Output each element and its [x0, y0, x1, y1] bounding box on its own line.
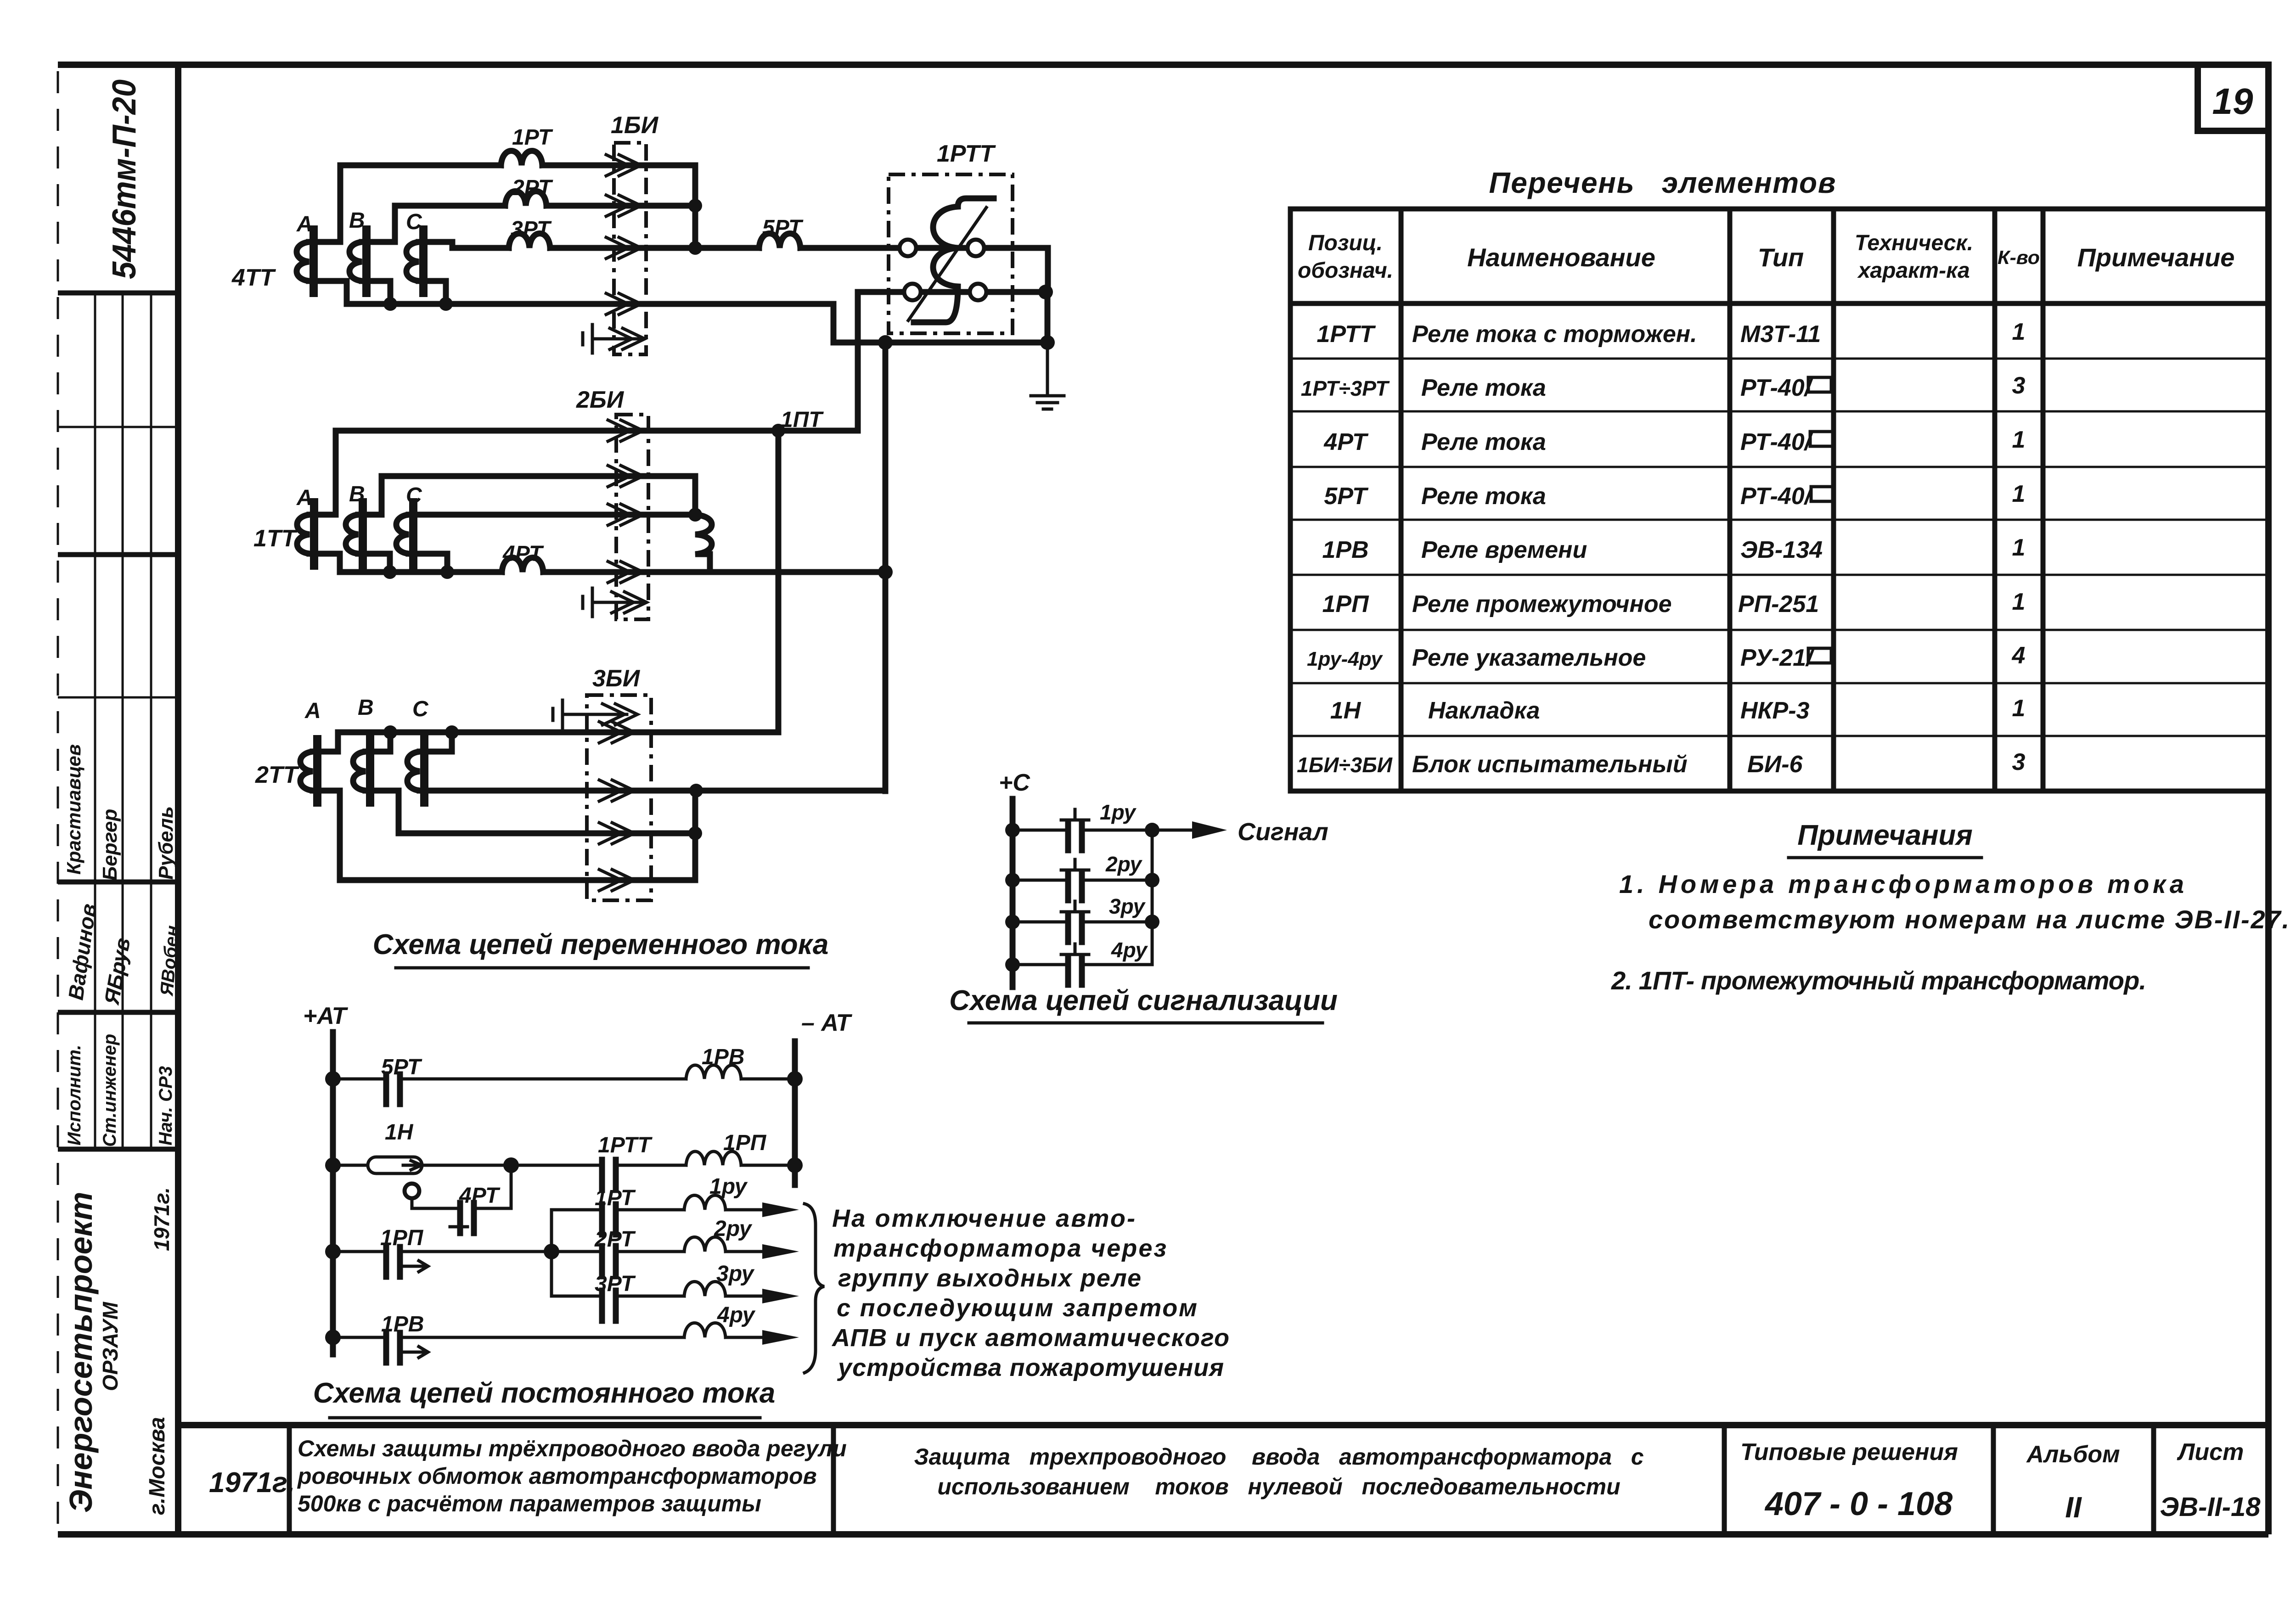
svg-text:трансформатора через: трансформатора через	[833, 1235, 1166, 1262]
svg-text:+С: +С	[999, 769, 1030, 796]
svg-text:1РТ: 1РТ	[512, 125, 553, 150]
svg-text:3: 3	[2012, 749, 2026, 775]
svg-text:Бергер: Бергер	[99, 809, 121, 881]
svg-text:Тип: Тип	[1758, 243, 1804, 272]
svg-text:1БИ: 1БИ	[611, 112, 659, 139]
svg-text:407 - 0 - 108: 407 - 0 - 108	[1764, 1486, 1953, 1522]
svg-text:Реле тока с торможен.: Реле тока с торможен.	[1412, 321, 1697, 348]
svg-text:характ-ка: характ-ка	[1857, 258, 1970, 283]
svg-text:М3Т-11: М3Т-11	[1740, 321, 1821, 348]
ground lead of test block 2BI	[583, 588, 592, 617]
svg-text:1РВ: 1РВ	[702, 1045, 744, 1069]
svg-text:К-во: К-во	[1998, 247, 2040, 268]
svg-text:Защита трехпроводного вво: Защита трехпроводного ввода автотрансфор…	[914, 1444, 1643, 1470]
test block 3BI	[587, 695, 651, 900]
wire 1N to 1RTT contact	[422, 1164, 600, 1167]
svg-text:Наименование: Наименование	[1467, 243, 1655, 272]
wire branch group	[550, 1210, 553, 1296]
svg-text:Нач. СР3: Нач. СР3	[156, 1066, 176, 1145]
svg-text:устройства пожаротушения: устройства пожаротушения	[837, 1354, 1224, 1381]
svg-text:Реле промежуточное: Реле промежуточное	[1412, 591, 1672, 618]
svg-text:– АТ: – АТ	[801, 1010, 853, 1036]
svg-text:1РВ: 1РВ	[1322, 537, 1368, 563]
svg-text:3ру: 3ру	[1109, 894, 1146, 918]
svg-text:Перечень элементов: Перечень элементов	[1489, 166, 1836, 199]
svg-text:II: II	[2065, 1491, 2082, 1524]
svg-text:Схема цепей переменного ток: Схема цепей переменного тока	[373, 929, 829, 960]
svg-text:1: 1	[2012, 427, 2026, 453]
wire collector	[1151, 830, 1154, 965]
svg-text:5РТ: 5РТ	[1324, 483, 1369, 510]
relay coil 1RT	[501, 151, 542, 166]
svg-text:3: 3	[2012, 372, 2026, 399]
svg-text:Схема цепей сигнализации: Схема цепей сигнализации	[949, 985, 1338, 1016]
svg-text:1: 1	[2012, 534, 2026, 561]
sheet number box	[2198, 65, 2268, 131]
wire 2TT-B bottom line	[378, 791, 695, 833]
svg-text:1РТТ: 1РТТ	[1317, 321, 1376, 348]
wire 1TT commons to 4RT line	[322, 554, 502, 572]
current transformer 4TT-A	[297, 230, 321, 293]
wire phase B to relay 2RT line	[374, 206, 505, 242]
svg-text:с последующим запретом: с последующим запретом	[837, 1294, 1197, 1322]
svg-text:1ру-4ру: 1ру-4ру	[1307, 648, 1384, 670]
wire 2TT tops parallel	[325, 732, 778, 752]
wire 4RT to bus	[543, 569, 885, 575]
svg-text:1РТТ: 1РТТ	[937, 140, 996, 167]
svg-text:Ст.инженер: Ст.инженер	[100, 1034, 120, 1147]
svg-text:4ру: 4ру	[1111, 938, 1148, 962]
test terminal circle	[405, 1184, 419, 1198]
relay 1RTT winding	[914, 198, 994, 322]
current transformer 1TT-C	[396, 502, 421, 566]
wire to -AT	[741, 1078, 795, 1081]
contact 4RU	[1013, 963, 1152, 966]
wire 1TT-C line	[421, 512, 695, 518]
node bus right of 1BI	[692, 165, 698, 248]
svg-text:Рубель: Рубель	[155, 806, 177, 880]
relay coil 4RT	[502, 558, 543, 573]
test block 1BI	[614, 143, 646, 354]
svg-text:Сигнал: Сигнал	[1238, 818, 1328, 846]
relay 1RTT slash	[908, 208, 986, 320]
relay coil 1RU	[684, 1196, 726, 1210]
svg-text:500кв с расчётом параметров за: 500кв с расчётом параметров защиты	[298, 1491, 761, 1516]
relay coil 5RT	[759, 234, 800, 248]
svg-text:Реле тока: Реле тока	[1421, 375, 1546, 401]
svg-text:1ру: 1ру	[1100, 800, 1137, 824]
terminals of 1RTT	[900, 240, 916, 256]
svg-text:Реле времени: Реле времени	[1421, 537, 1587, 563]
svg-text:2РТ: 2РТ	[512, 176, 553, 200]
svg-text:ровочных обмоток автотрансформ: ровочных обмоток автотрансформаторов	[297, 1463, 817, 1489]
wire +AT bus	[330, 1032, 336, 1354]
svg-text:+АТ: +АТ	[303, 1003, 349, 1029]
svg-text:1ПТ: 1ПТ	[781, 408, 824, 432]
svg-text:1РП: 1РП	[723, 1131, 767, 1155]
svg-text:1Н: 1Н	[385, 1120, 414, 1145]
output note text	[831, 1205, 1229, 1381]
svg-text:АПВ и пуск автоматического: АПВ и пуск автоматического	[831, 1324, 1229, 1352]
svg-text:2ру: 2ру	[714, 1217, 753, 1241]
svg-text:А: А	[304, 699, 321, 723]
contact 3RU	[1013, 921, 1152, 924]
svg-text:Примечание: Примечание	[2077, 243, 2235, 272]
svg-text:1. Номера трансформаторов: 1. Номера трансформаторов тока	[1619, 870, 2184, 898]
wire phase C to relay 3RT line	[431, 242, 509, 248]
svg-text:Схемы защиты трёхпроводного вв: Схемы защиты трёхпроводного ввода регули	[298, 1436, 847, 1461]
svg-text:ЭВ-134: ЭВ-134	[1740, 537, 1823, 563]
wire 1TT-A to 1RTT lower rail	[322, 431, 858, 515]
svg-text:Реле тока: Реле тока	[1421, 483, 1546, 510]
svg-text:3БИ: 3БИ	[592, 665, 641, 692]
svg-text:1: 1	[2012, 481, 2026, 507]
svg-text:использованием токов нуле: использованием токов нулевой последовате…	[937, 1474, 1620, 1499]
wire 1TT-B line	[371, 476, 695, 515]
current transformer 1TT-A	[297, 502, 322, 566]
svg-text:Альбом: Альбом	[2026, 1441, 2120, 1468]
svg-text:1: 1	[2012, 319, 2026, 345]
wire 2RT to bus	[546, 203, 695, 209]
relay coil 3RT	[509, 234, 550, 248]
wire common return bus	[878, 335, 893, 350]
relay coil 1RP	[686, 1151, 741, 1165]
svg-text:РП-251: РП-251	[1738, 591, 1819, 618]
svg-text:5РТ: 5РТ	[762, 216, 804, 240]
svg-text:1: 1	[2012, 695, 2026, 722]
svg-text:2ТТ: 2ТТ	[255, 762, 300, 788]
ground	[1031, 389, 1064, 409]
svg-text:Блок испытательный: Блок испытательный	[1412, 751, 1688, 778]
current transformer 4TT-C	[406, 230, 431, 293]
svg-text:ОРЗАУМ: ОРЗАУМ	[98, 1301, 122, 1391]
current transformer 1TT-B	[346, 502, 371, 566]
svg-text:1: 1	[2012, 589, 2026, 615]
svg-text:4ру: 4ру	[717, 1303, 756, 1327]
svg-text:обознач.: обознач.	[1298, 258, 1393, 283]
svg-text:соответствуют номерам на лис: соответствуют номерам на листе ЭВ-II-27.	[1649, 905, 2289, 934]
svg-text:4РТ: 4РТ	[459, 1184, 501, 1208]
relay 1RTT block	[889, 174, 1013, 333]
svg-text:4РТ: 4РТ	[502, 542, 544, 566]
wire link to 2TT group	[776, 431, 782, 732]
svg-text:РТ-40/: РТ-40/	[1740, 375, 1814, 401]
wire 1RTT lower rail from 1PT	[858, 292, 1046, 431]
svg-text:3ру: 3ру	[716, 1262, 755, 1286]
svg-text:С: С	[412, 697, 429, 721]
svg-text:Реле указательное: Реле указательное	[1412, 645, 1646, 671]
relay coil 3RU	[684, 1282, 726, 1297]
svg-text:1ТТ: 1ТТ	[253, 525, 298, 552]
svg-text:РТ-40/: РТ-40/	[1740, 483, 1814, 510]
contact 2RU	[1013, 879, 1152, 882]
svg-text:3РТ: 3РТ	[511, 217, 552, 241]
svg-text:19: 19	[2212, 81, 2253, 122]
svg-text:БИ-6: БИ-6	[1747, 751, 1803, 778]
wire phase A to relay 1RT line	[321, 165, 501, 242]
svg-text:1РТТ: 1РТТ	[598, 1133, 653, 1157]
svg-text:Энергосетьпроект: Энергосетьпроект	[63, 1192, 99, 1513]
wire to ground	[1045, 292, 1051, 342]
wire 2TT-C bottom line	[432, 788, 885, 794]
relay coil 4RU	[684, 1323, 726, 1338]
contact 1RU	[1013, 829, 1152, 832]
relay coil 2RT	[505, 191, 546, 206]
wire 3RT through bus to 5RT	[550, 245, 759, 251]
relay coil 2RU	[684, 1237, 726, 1252]
svg-text:1РТ÷3РТ: 1РТ÷3РТ	[1301, 376, 1390, 400]
svg-text:Схема цепей постоянного ток: Схема цепей постоянного тока	[313, 1377, 776, 1409]
svg-text:Крастиавцев: Крастиавцев	[63, 744, 84, 875]
wire +C bus	[1010, 799, 1016, 987]
relay coil 1RV	[686, 1065, 741, 1079]
node at 1RTT output	[1038, 285, 1053, 299]
svg-text:г.Москва: г.Москва	[145, 1417, 169, 1515]
svg-text:Исполнит.: Исполнит.	[64, 1044, 84, 1145]
brace	[805, 1204, 824, 1373]
ground lead of test block 1BI	[583, 325, 592, 353]
svg-text:1971г.: 1971г.	[209, 1467, 295, 1499]
svg-text:РУ-21/: РУ-21/	[1740, 645, 1815, 671]
svg-text:Реле тока: Реле тока	[1421, 429, 1546, 455]
svg-text:2. 1ПТ- промежуточный трансфо: 2. 1ПТ- промежуточный трансформатор.	[1611, 966, 2146, 995]
svg-text:2ру: 2ру	[1105, 852, 1142, 876]
intermediate transformer 1PT winding	[695, 515, 712, 572]
svg-text:НКР-3: НКР-3	[1740, 697, 1810, 724]
current transformer 2TT-A	[300, 739, 325, 803]
svg-text:Типовые решения: Типовые решения	[1740, 1439, 1958, 1465]
svg-text:Накладка: Накладка	[1428, 697, 1540, 724]
svg-text:1БИ÷3БИ: 1БИ÷3БИ	[1297, 753, 1393, 777]
wire 5RT to relay 1RTT	[800, 248, 1048, 292]
svg-text:На отключение авто-: На отключение авто-	[832, 1205, 1135, 1232]
svg-text:1971г.: 1971г.	[150, 1187, 174, 1251]
svg-text:Примечания: Примечания	[1797, 820, 1973, 851]
test block 2BI	[616, 415, 648, 619]
current transformer 2TT-B	[353, 739, 378, 803]
svg-text:1РП: 1РП	[1322, 591, 1369, 618]
table rows text	[1297, 319, 2025, 778]
wire signal output arrow	[1152, 829, 1205, 832]
svg-text:1Н: 1Н	[1330, 697, 1362, 724]
current transformer 4TT-B	[349, 230, 374, 293]
svg-text:Лист: Лист	[2177, 1439, 2244, 1465]
current transformer 2TT-C	[407, 739, 432, 803]
svg-text:ЭВ-II-18: ЭВ-II-18	[2160, 1492, 2261, 1522]
wire 4RT branch	[412, 1165, 511, 1208]
wire -AT bus	[792, 1041, 798, 1185]
svg-text:Позиц.: Позиц.	[1308, 231, 1383, 255]
svg-text:4: 4	[2012, 642, 2026, 669]
svg-text:5446тм-П-20: 5446тм-П-20	[106, 79, 143, 279]
ground lead of test block 3BI	[553, 700, 563, 729]
svg-text:В: В	[358, 696, 374, 720]
wire 4TT commons return	[321, 281, 1047, 342]
svg-text:РТ-40/: РТ-40/	[1740, 429, 1814, 455]
wire 1RT to bus	[542, 163, 695, 168]
svg-text:4ТТ: 4ТТ	[231, 264, 276, 291]
svg-text:Техническ.: Техническ.	[1855, 231, 1973, 255]
svg-text:4РТ: 4РТ	[1323, 429, 1369, 455]
svg-text:1ру: 1ру	[709, 1174, 748, 1199]
svg-text:2БИ: 2БИ	[576, 387, 625, 413]
wire 2TT-A bottom line	[325, 791, 695, 880]
